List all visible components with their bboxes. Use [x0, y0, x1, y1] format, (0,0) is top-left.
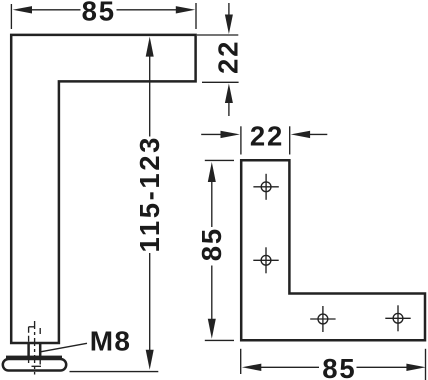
- bracket plate outline: [241, 160, 425, 340]
- hidden screw outline dashed: [29, 327, 41, 367]
- dim 115-123: bottom extension line: [70, 371, 159, 373]
- svg-text:M8: M8: [90, 325, 131, 356]
- svg-text:22: 22: [212, 40, 243, 74]
- dim 22 plate: extension ticks: [241, 126, 290, 154]
- dim 85 top: left arrow: [13, 6, 81, 13]
- hole 2: [253, 247, 278, 273]
- M8 leader line: [41, 343, 88, 352]
- svg-text:22: 22: [250, 121, 284, 152]
- dim 85 top: right arrow: [117, 6, 196, 13]
- dim 85 plate bottom: extension ticks: [241, 349, 426, 380]
- dim 115-123: up arrow: [146, 37, 154, 137]
- dim 85 plate bottom: left arrow: [242, 364, 319, 371]
- dim 85 plate left: up arrow: [208, 162, 216, 227]
- dim 85 top: extension ticks: [11, 3, 196, 29]
- dim 85 plate left: top extension: [205, 159, 234, 161]
- dim 22 plate: left arrow: [201, 131, 240, 138]
- dim 85 plate left: down arrow: [208, 266, 216, 339]
- foot glide stadium: [3, 359, 66, 371]
- dim 22 leg: top arrow: [225, 3, 233, 34]
- svg-text:115-123: 115-123: [134, 135, 165, 253]
- hole 1: [253, 174, 278, 200]
- dim 115-123: down arrow: [146, 253, 154, 370]
- dim 85 plate left: bottom extension: [205, 339, 234, 341]
- foot top plate: [6, 356, 62, 360]
- dim 22 leg: bottom arrow: [225, 84, 233, 117]
- dim 85 plate bottom: right arrow: [357, 364, 426, 371]
- svg-text:85: 85: [196, 227, 227, 261]
- spindle stem: [29, 343, 41, 357]
- svg-text:85: 85: [82, 0, 116, 27]
- svg-text:85: 85: [322, 353, 356, 380]
- dim 22 leg: extension ticks: [197, 35, 239, 82]
- dim 22 plate: right arrow: [291, 131, 328, 138]
- center line dashed: [34, 321, 36, 375]
- leg outline: [11, 35, 195, 343]
- hole 4: [385, 305, 410, 331]
- hole 3: [310, 306, 335, 332]
